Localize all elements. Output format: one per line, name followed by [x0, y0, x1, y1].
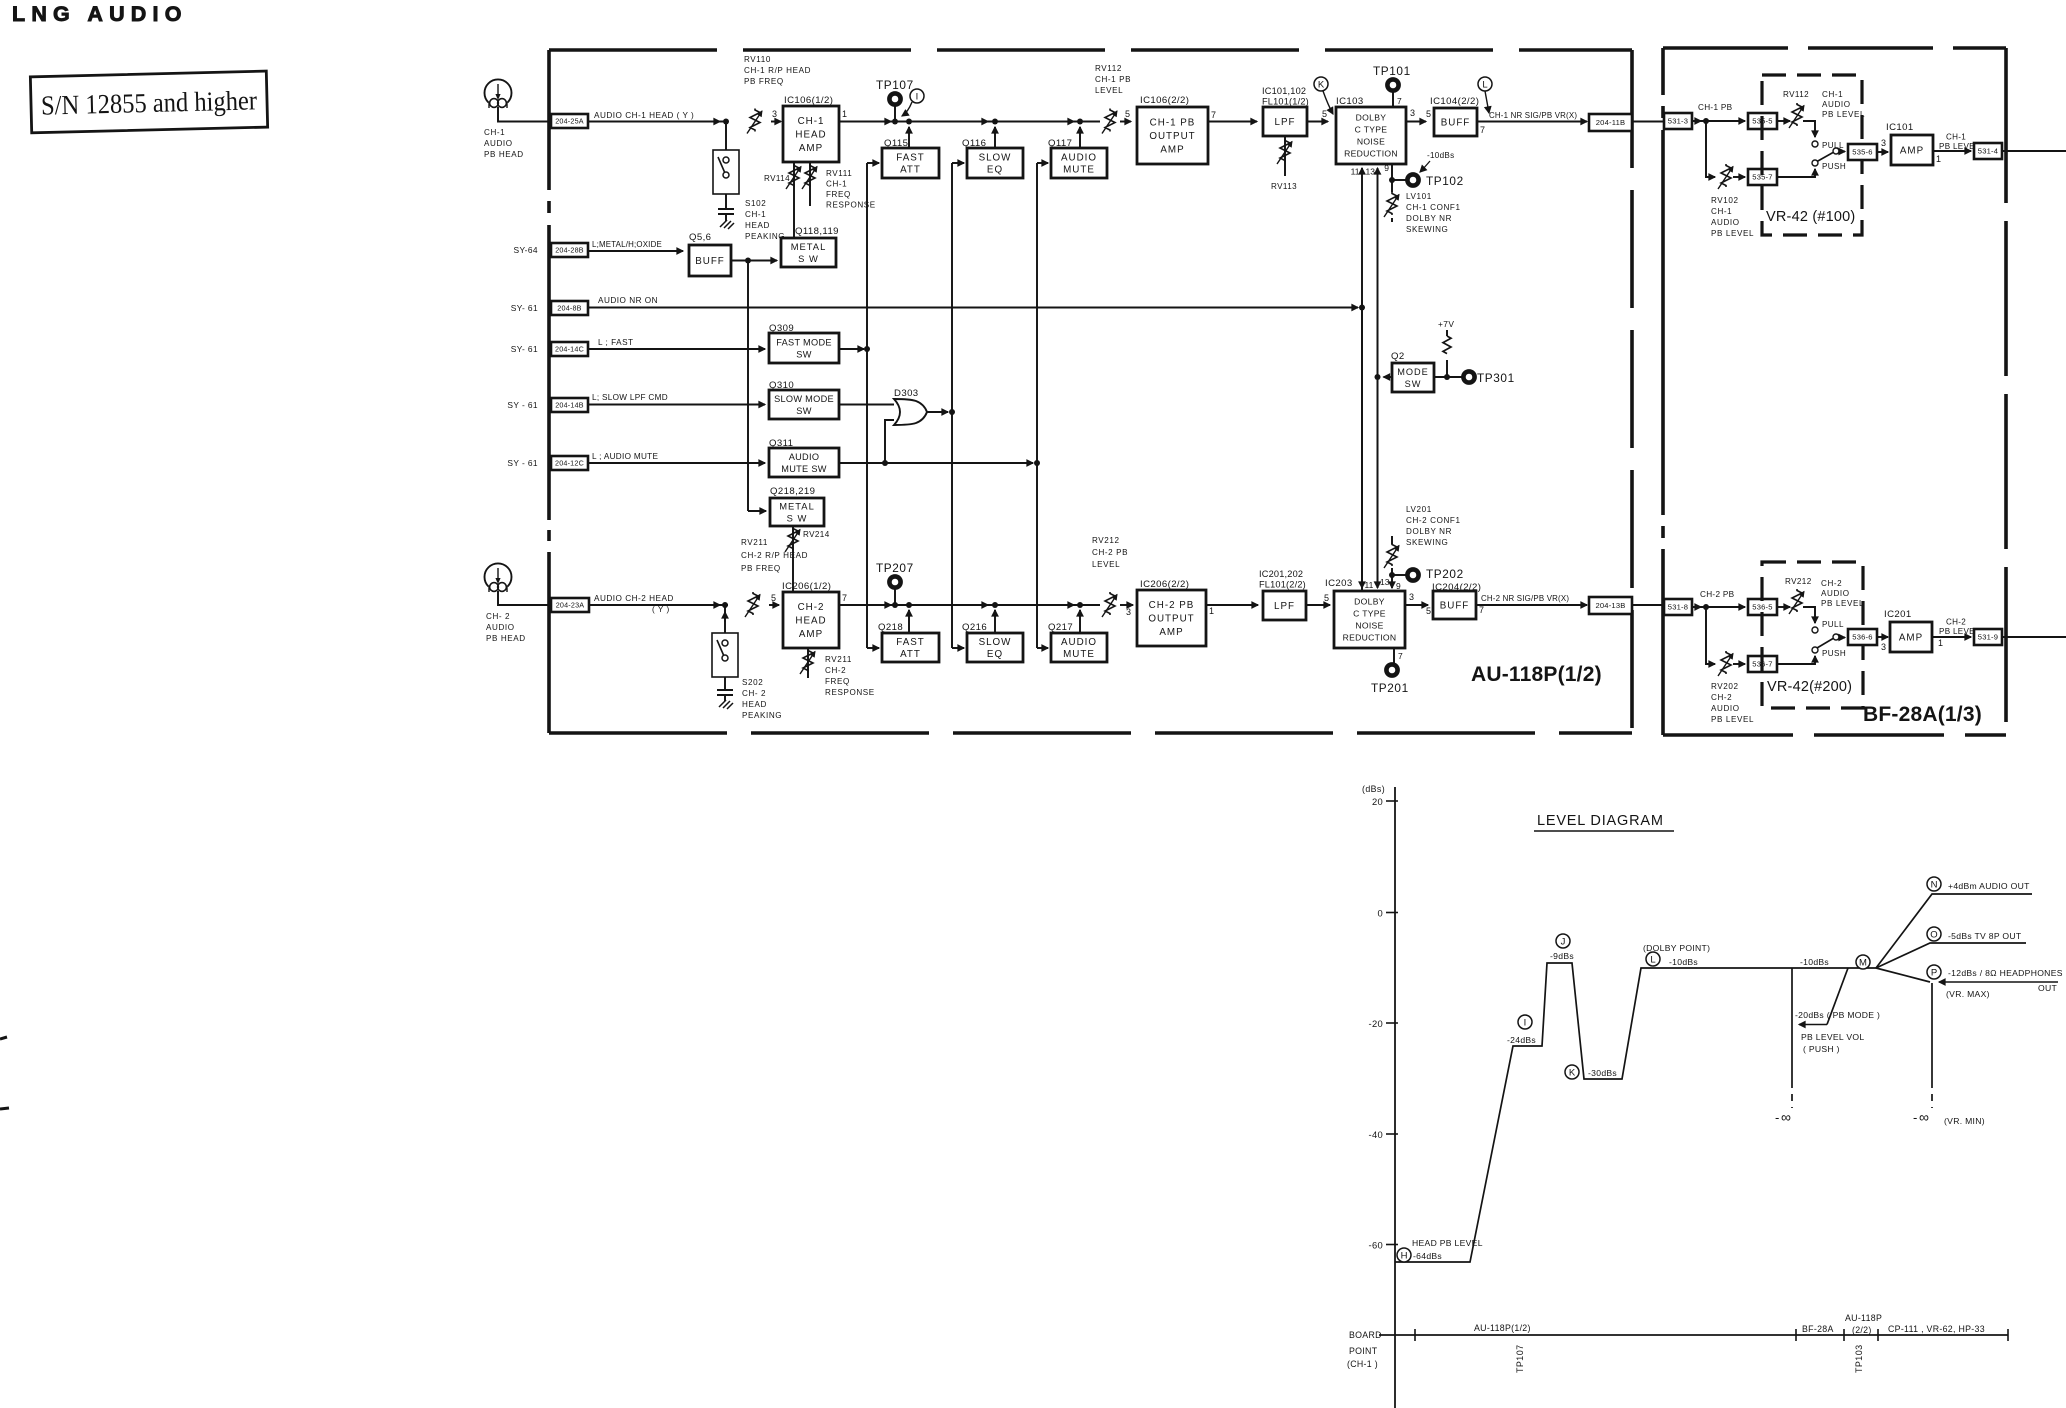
svg-text:IC206(1/2): IC206(1/2)	[782, 581, 831, 592]
wire into head amp	[769, 604, 779, 606]
wire 535-7 to push	[1777, 169, 1815, 177]
svg-text:OUTPUT: OUTPUT	[1148, 614, 1194, 625]
svg-text:L ; FAST: L ; FAST	[598, 338, 634, 347]
svg-text:RV212: RV212	[1785, 577, 1812, 586]
svg-text:-20: -20	[1369, 1018, 1383, 1029]
level diagram y-axis	[1394, 787, 1396, 1408]
svg-text:RV212: RV212	[1092, 536, 1120, 545]
svg-text:AUDIO: AUDIO	[1821, 589, 1850, 598]
svg-text:EQ: EQ	[987, 165, 1003, 176]
board BF-28A(1/3) outline	[1663, 46, 2006, 50]
capacitor S202 head peaking	[717, 690, 733, 695]
svg-text:HEAD: HEAD	[795, 130, 826, 141]
svg-text:(dBs): (dBs)	[1362, 784, 1385, 794]
svg-text:RV211: RV211	[825, 655, 852, 664]
svg-text:REDUCTION: REDUCTION	[1344, 149, 1398, 159]
svg-text:AMP: AMP	[1160, 145, 1184, 156]
wire output CH-1	[2002, 150, 2066, 152]
svg-text:AUDIO: AUDIO	[789, 452, 820, 462]
svg-text:531-3: 531-3	[1668, 117, 1688, 126]
svg-text:AUDIO: AUDIO	[486, 623, 515, 632]
wire fast control vertical	[866, 163, 868, 648]
svg-text:K: K	[1569, 1067, 1576, 1078]
svg-text:CH-1: CH-1	[1822, 90, 1843, 99]
svg-text:-60: -60	[1369, 1240, 1383, 1251]
svg-text:Q216: Q216	[962, 622, 987, 633]
junction	[1077, 119, 1083, 125]
svg-text:5: 5	[1426, 606, 1431, 616]
wire to OR gate lower input	[885, 420, 894, 463]
svg-text:L;METAL/H;OXIDE: L;METAL/H;OXIDE	[592, 240, 662, 249]
connector 204-13B	[1589, 597, 1632, 614]
svg-text:SW: SW	[796, 406, 811, 416]
wire head to connector	[498, 107, 551, 122]
note box S/N 12855 and higher	[30, 71, 267, 133]
switch S102	[713, 150, 739, 194]
wire 204-11B to 531-3	[1632, 121, 1664, 123]
VR-42(#200) outline	[1762, 562, 1863, 708]
svg-text:BOARD: BOARD	[1349, 1330, 1382, 1340]
connector 535-6	[1848, 144, 1877, 160]
svg-text:S/N 12855 and higher: S/N 12855 and higher	[41, 84, 258, 120]
wire metal/oxide	[588, 250, 683, 252]
junction	[992, 602, 998, 608]
trimmer RV210 CH-2 PB FREQ	[748, 592, 758, 615]
svg-text:Q5,6: Q5,6	[689, 232, 711, 243]
wire mode sw right	[1434, 376, 1463, 378]
svg-text:RV214: RV214	[803, 530, 830, 539]
junction	[1077, 602, 1083, 608]
test point TP107	[894, 106, 896, 122]
svg-text:FL101(2/2): FL101(2/2)	[1259, 580, 1306, 590]
pull/push switch	[1803, 607, 1815, 623]
svg-text:AU-118P(1/2): AU-118P(1/2)	[1471, 663, 1602, 686]
svg-text:RV102: RV102	[1711, 196, 1739, 205]
svg-text:IC101,102: IC101,102	[1262, 86, 1306, 96]
wire to CH-2 metal sw	[747, 261, 749, 512]
trimmer RV111	[809, 162, 811, 206]
svg-text:1: 1	[1209, 606, 1214, 616]
svg-text:204-14B: 204-14B	[555, 401, 584, 410]
svg-text:CH-2 PB: CH-2 PB	[1149, 600, 1195, 611]
svg-text:CH-1: CH-1	[798, 116, 825, 127]
trimmer RV212 front panel	[1777, 606, 1790, 608]
wire amp to 531-4	[1933, 150, 1971, 152]
svg-text:BF-28A: BF-28A	[1802, 1324, 1834, 1334]
svg-text:METAL: METAL	[791, 241, 827, 252]
wire amp to 531-9	[1932, 636, 1971, 638]
wire 204-13B to 531-8	[1632, 604, 1664, 606]
svg-text:PUSH: PUSH	[1822, 649, 1846, 658]
svg-text:HEAD: HEAD	[795, 616, 826, 627]
svg-text:L ; AUDIO MUTE: L ; AUDIO MUTE	[592, 452, 658, 461]
svg-text:CH-2: CH-2	[798, 602, 825, 613]
trimmer RV214	[792, 526, 794, 592]
wire LPF to dolby	[1306, 604, 1330, 606]
board axis	[1379, 1334, 2008, 1336]
wire dolby to buff	[1405, 604, 1428, 606]
svg-text:AUDIO: AUDIO	[1061, 637, 1097, 648]
svg-text:TP301: TP301	[1477, 371, 1515, 385]
svg-text:Q2: Q2	[1391, 351, 1405, 362]
wire AUDIO NR ON	[588, 307, 1358, 309]
svg-text:S W: S W	[787, 512, 808, 523]
svg-text:TP101: TP101	[1373, 64, 1411, 78]
svg-text:CH-2: CH-2	[1821, 579, 1842, 588]
svg-text:CH-2 R/P HEAD: CH-2 R/P HEAD	[741, 551, 808, 560]
wire to 536-6	[1839, 637, 1845, 639]
svg-text:J: J	[1561, 936, 1566, 947]
scan mark	[0, 1037, 7, 1039]
svg-text:BF-28A(1/3): BF-28A(1/3)	[1863, 703, 1982, 726]
svg-text:SY - 61: SY - 61	[507, 458, 538, 468]
svg-text:HEAD: HEAD	[742, 700, 767, 709]
svg-text:Q217: Q217	[1048, 622, 1073, 633]
diagonal to M	[1827, 968, 1848, 1025]
svg-text:D303: D303	[894, 388, 919, 399]
svg-text:RV202: RV202	[1711, 682, 1739, 691]
trimmer RV102	[1721, 164, 1731, 187]
svg-text:CH-1 PB: CH-1 PB	[1698, 103, 1733, 112]
level point I marker	[910, 89, 924, 103]
svg-text:RESPONSE: RESPONSE	[825, 688, 875, 697]
scan mark	[0, 1108, 9, 1109]
op-amp IC206(1/2) CH-2 HEAD AMP	[783, 592, 839, 648]
svg-text:CH-2: CH-2	[1711, 693, 1732, 702]
svg-text:7: 7	[1480, 125, 1485, 135]
svg-text:FREQ: FREQ	[825, 677, 850, 686]
svg-text:RESPONSE: RESPONSE	[826, 201, 876, 210]
svg-text:PB LEVEL: PB LEVEL	[1711, 229, 1754, 238]
svg-text:VR-42(#200): VR-42(#200)	[1767, 679, 1852, 695]
axis tick -60	[1386, 1244, 1398, 1246]
svg-text:IC206(2/2): IC206(2/2)	[1140, 579, 1189, 590]
svg-text:IC101: IC101	[1886, 122, 1914, 133]
svg-text:ATT: ATT	[900, 165, 921, 176]
svg-text:RV211: RV211	[741, 538, 768, 547]
resistor to +7V	[1446, 360, 1448, 377]
svg-text:PB FREQ: PB FREQ	[744, 77, 784, 86]
svg-text:AUDIO CH-2 HEAD: AUDIO CH-2 HEAD	[594, 594, 674, 603]
svg-text:TP107: TP107	[876, 78, 914, 92]
svg-text:PULL: PULL	[1822, 141, 1844, 150]
level point K	[1565, 1065, 1579, 1079]
svg-text:-64dBs: -64dBs	[1413, 1251, 1442, 1261]
svg-text:AUDIO: AUDIO	[484, 139, 513, 148]
svg-text:1: 1	[842, 109, 847, 119]
svg-text:204-14C: 204-14C	[555, 345, 584, 354]
IC203 DOLBY C TYPE NOISE REDUCTION	[1334, 591, 1405, 648]
pull/push switch	[1803, 121, 1815, 137]
wire slow mode to OR gate	[839, 404, 894, 406]
axis tick -20	[1386, 1022, 1398, 1024]
svg-text:MUTE: MUTE	[1063, 165, 1095, 176]
svg-text:TP102: TP102	[1426, 174, 1464, 188]
wire mode sw to pin13 line	[1384, 376, 1393, 378]
wire 536-7 to push	[1777, 656, 1815, 664]
-20dBs PB MODE arrow	[1799, 1024, 1827, 1026]
svg-text:Q218: Q218	[878, 622, 903, 633]
svg-text:BUFF: BUFF	[1441, 118, 1471, 129]
level point L	[1646, 952, 1660, 966]
svg-text:L; SLOW LPF CMD: L; SLOW LPF CMD	[592, 393, 668, 402]
svg-text:MUTE: MUTE	[1063, 649, 1095, 660]
svg-text:CH-1 PB: CH-1 PB	[1095, 75, 1131, 84]
svg-text:PB LEVEL: PB LEVEL	[1821, 599, 1864, 608]
junction	[892, 119, 898, 125]
svg-text:-5dBs TV 8P OUT: -5dBs TV 8P OUT	[1948, 931, 2022, 941]
svg-text:7: 7	[842, 593, 847, 603]
VR min branch	[1931, 983, 1933, 1081]
wire CH-1 head signal	[588, 121, 728, 123]
svg-text:-10dBs: -10dBs	[1427, 151, 1454, 160]
svg-text:7: 7	[1479, 605, 1484, 615]
svg-text:LV201: LV201	[1406, 505, 1432, 514]
svg-text:DOLBY NR: DOLBY NR	[1406, 527, 1452, 536]
svg-text:-12dBs / 8Ω HEADPHONES: -12dBs / 8Ω HEADPHONES	[1948, 968, 2063, 978]
level point P	[1927, 965, 1941, 979]
svg-text:PB FREQ: PB FREQ	[741, 564, 781, 573]
svg-text:C TYPE: C TYPE	[1353, 609, 1386, 619]
svg-text:AUDIO: AUDIO	[1711, 704, 1740, 713]
svg-text:SKEWING: SKEWING	[1406, 538, 1448, 547]
pin 11 wire dolby1 to dolby2	[1361, 168, 1363, 591]
wire RV102 to 535-7	[1733, 176, 1745, 178]
svg-text:CH-2 NR SIG/PB VR(X): CH-2 NR SIG/PB VR(X)	[1481, 594, 1569, 603]
svg-text:PEAKING: PEAKING	[742, 711, 782, 720]
wire RV202 to 536-7	[1733, 663, 1745, 665]
svg-text:( Y ): ( Y )	[652, 605, 670, 614]
svg-text:-: -	[1775, 1110, 1779, 1125]
svg-text:N: N	[1931, 879, 1938, 890]
ground	[725, 214, 727, 221]
svg-text:7: 7	[1397, 96, 1402, 106]
junction	[892, 602, 898, 608]
VR-42(#100) outline	[1762, 75, 1862, 235]
svg-text:RV111: RV111	[826, 169, 852, 178]
pin 13 wire dolby1 to dolby2	[1377, 168, 1379, 587]
wire fast mode out	[839, 348, 864, 350]
wire head amp to PB level	[839, 121, 1100, 123]
svg-text:SY-64: SY-64	[513, 245, 538, 255]
svg-text:( PUSH ): ( PUSH )	[1803, 1044, 1840, 1054]
wire audio mute out	[839, 462, 1033, 464]
svg-text:3: 3	[1126, 607, 1131, 617]
svg-text:5: 5	[1322, 109, 1327, 119]
svg-text:LEVEL: LEVEL	[1092, 560, 1120, 569]
svg-text:DOLBY NR: DOLBY NR	[1406, 214, 1452, 223]
wire CH-2 head signal	[589, 604, 728, 606]
svg-text:13: 13	[1366, 167, 1376, 177]
buffer IC204(2/2) BUFF	[1433, 591, 1476, 619]
svg-text:FAST: FAST	[896, 637, 925, 648]
branch to N audio out	[1876, 894, 2032, 968]
trimmer RV211 CH-2 FREQ RESPONSE	[807, 648, 809, 678]
branch to O tv out	[1876, 943, 2026, 968]
wire switch to capacitor	[724, 677, 726, 690]
svg-text:RV110: RV110	[744, 55, 771, 64]
svg-text:AMP: AMP	[799, 629, 823, 640]
svg-text:PEAKING: PEAKING	[745, 232, 785, 241]
svg-text:FL101(1/2): FL101(1/2)	[1262, 97, 1309, 107]
wire to LPF	[1206, 604, 1258, 606]
svg-text:CH-1 NR SIG/PB VR(X): CH-1 NR SIG/PB VR(X)	[1489, 111, 1577, 120]
svg-text:531-4: 531-4	[1978, 147, 1998, 156]
svg-text:-10dBs: -10dBs	[1669, 957, 1698, 967]
test point TP102	[1407, 174, 1418, 185]
svg-text:SLOW: SLOW	[979, 637, 1012, 648]
svg-text:S102: S102	[745, 199, 766, 208]
trimmer RV114	[793, 162, 795, 238]
svg-text:RV113: RV113	[1271, 182, 1297, 191]
wire 536-6 to amp	[1877, 636, 1888, 638]
svg-text:CH- 2: CH- 2	[742, 689, 766, 698]
connector 204-25A	[551, 114, 588, 128]
wire to S102	[725, 122, 727, 151]
buffer IC104(2/2) BUFF	[1434, 108, 1477, 136]
svg-text:AU-118P(1/2): AU-118P(1/2)	[1474, 1323, 1531, 1333]
svg-text:PUSH: PUSH	[1822, 162, 1846, 171]
wire to S202	[724, 605, 726, 633]
svg-text:RV114: RV114	[764, 174, 790, 183]
svg-text:IC104(2/2): IC104(2/2)	[1430, 96, 1479, 107]
svg-text:DOLBY: DOLBY	[1356, 113, 1387, 123]
pin 9 TP102 node	[1391, 164, 1393, 180]
svg-text:TP201: TP201	[1371, 681, 1409, 695]
filter LPF IC101,102	[1263, 107, 1307, 136]
axis tick 20	[1386, 800, 1398, 802]
svg-text:RV112: RV112	[1783, 90, 1809, 99]
svg-text:∞: ∞	[1781, 1109, 1791, 1125]
wire 531-3 to 535-5	[1692, 120, 1745, 122]
svg-text:(VR. MIN): (VR. MIN)	[1944, 1116, 1985, 1126]
svg-text:FREQ: FREQ	[826, 190, 851, 199]
svg-text:9: 9	[1384, 163, 1389, 173]
wire OR out	[927, 411, 948, 413]
level point O	[1927, 927, 1941, 941]
svg-text:CH-2: CH-2	[825, 666, 846, 675]
svg-text:CH-1: CH-1	[484, 128, 505, 137]
svg-text:3: 3	[1409, 592, 1414, 602]
svg-text:MODE: MODE	[1397, 367, 1429, 377]
svg-text:5: 5	[1426, 109, 1431, 119]
svg-text:PULL: PULL	[1822, 620, 1844, 629]
svg-text:PB LEVEL: PB LEVEL	[1822, 110, 1865, 119]
PB level vol branch	[1791, 968, 1793, 1081]
svg-text:13: 13	[1380, 577, 1390, 587]
test point TP201	[1393, 648, 1395, 663]
svg-text:CH-2 PB: CH-2 PB	[1700, 590, 1735, 599]
svg-text:CH-2 PB: CH-2 PB	[1092, 548, 1128, 557]
trimmer RV112 CH-1 PB LEVEL	[1105, 109, 1115, 132]
svg-text:204-8B: 204-8B	[557, 304, 581, 313]
svg-text:3: 3	[1881, 138, 1886, 148]
wire dolby to buff	[1406, 121, 1426, 123]
junction	[723, 119, 729, 125]
svg-text:11: 11	[1365, 580, 1374, 590]
svg-text:204-23A: 204-23A	[556, 601, 585, 610]
svg-text:I: I	[916, 91, 919, 102]
axis tick 0	[1386, 912, 1398, 914]
trimmer RV202	[1721, 651, 1731, 674]
svg-text:-24dBs: -24dBs	[1507, 1035, 1536, 1045]
svg-text:536-6: 536-6	[1852, 633, 1872, 642]
op-amp IC206(2/2) CH-2 PB OUTPUT AMP	[1137, 590, 1206, 646]
svg-text:L: L	[1650, 954, 1655, 965]
level point L marker	[1478, 77, 1492, 91]
trimmer RV212 CH-2 PB LEVEL	[1105, 592, 1115, 615]
op-amp IC201 AMP	[1890, 622, 1932, 652]
svg-text:BUFF: BUFF	[1440, 601, 1470, 612]
svg-text:-10dBs: -10dBs	[1800, 957, 1829, 967]
wire output CH-2	[2002, 636, 2066, 638]
wire L:SLOW LPF CMD	[588, 404, 765, 406]
junction	[906, 119, 912, 125]
svg-text:AUDIO CH-1 HEAD ( Y ): AUDIO CH-1 HEAD ( Y )	[594, 111, 694, 120]
svg-text:204-12C: 204-12C	[555, 459, 584, 468]
svg-text:TP202: TP202	[1426, 567, 1464, 581]
level point H	[1397, 1248, 1411, 1262]
svg-text:FAST MODE: FAST MODE	[776, 337, 832, 347]
svg-text:3: 3	[1881, 642, 1886, 652]
svg-text:REDUCTION: REDUCTION	[1343, 633, 1397, 643]
svg-text:TP103: TP103	[1854, 1344, 1864, 1373]
svg-text:-30dBs: -30dBs	[1588, 1068, 1617, 1078]
svg-text:204-13B: 204-13B	[1595, 601, 1625, 610]
wire to 536-6 -- 535-6	[1839, 151, 1845, 153]
junction	[906, 602, 912, 608]
svg-text:1: 1	[1938, 638, 1943, 648]
svg-text:(CH-1 ): (CH-1 )	[1347, 1359, 1378, 1369]
svg-text:+4dBm AUDIO OUT: +4dBm AUDIO OUT	[1948, 881, 2030, 891]
svg-text:SW: SW	[796, 349, 811, 359]
trimmer RV113	[1284, 136, 1286, 176]
svg-text:LPF: LPF	[1274, 601, 1295, 612]
svg-text:-: -	[1913, 1110, 1917, 1125]
svg-text:HEAD: HEAD	[745, 221, 770, 230]
svg-text:MUTE SW: MUTE SW	[781, 464, 827, 474]
svg-text:CH-2 CONF1: CH-2 CONF1	[1406, 516, 1461, 525]
connector 531-3	[1664, 113, 1692, 129]
svg-text:S202: S202	[742, 678, 763, 687]
test point TP207	[894, 589, 896, 605]
wire L:AUDIO MUTE	[588, 462, 765, 464]
svg-text:SW: SW	[1405, 379, 1422, 389]
svg-text:PB LEVEL VOL: PB LEVEL VOL	[1801, 1032, 1864, 1042]
svg-text:-9dBs: -9dBs	[1550, 951, 1574, 961]
capacitor S102 head peaking	[718, 209, 734, 214]
svg-text:SKEWING: SKEWING	[1406, 225, 1448, 234]
svg-text:POINT: POINT	[1349, 1346, 1378, 1356]
pin 9 TP202 node	[1391, 575, 1393, 588]
svg-text:204-28B: 204-28B	[555, 246, 584, 255]
junction	[722, 602, 728, 608]
svg-text:CP-111 , VR-62, HP-33: CP-111 , VR-62, HP-33	[1888, 1324, 1985, 1334]
connector 531-8	[1664, 599, 1692, 615]
board AU-118P(1/2) outline	[549, 48, 1632, 52]
axis tick -40	[1386, 1133, 1398, 1135]
svg-text:AUDIO: AUDIO	[1822, 100, 1851, 109]
wire to LPF	[1208, 121, 1257, 123]
test point TP202	[1407, 569, 1418, 580]
test point TP301	[1463, 371, 1474, 382]
ground	[724, 695, 726, 701]
svg-text:FAST: FAST	[896, 153, 925, 164]
headphones out line	[1939, 981, 2058, 983]
svg-text:SY - 61: SY - 61	[507, 400, 538, 410]
trimmer RV110	[750, 109, 760, 132]
svg-text:IC106(2/2): IC106(2/2)	[1140, 95, 1189, 106]
